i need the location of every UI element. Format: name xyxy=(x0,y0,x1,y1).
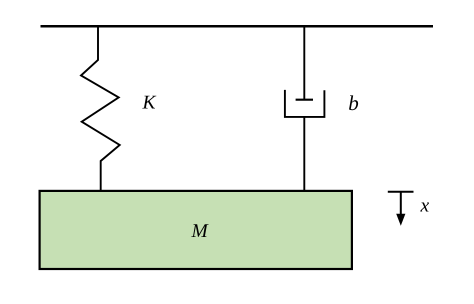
spring K xyxy=(81,26,120,191)
damper rod (top) xyxy=(303,26,305,100)
svg-text:x: x xyxy=(420,196,430,217)
damper cylinder xyxy=(285,90,325,117)
svg-text:M: M xyxy=(191,221,210,242)
damper rod (bottom) xyxy=(303,117,305,191)
ceiling (fixed support) xyxy=(41,25,434,28)
mass M block xyxy=(40,191,352,269)
displacement arrow x xyxy=(388,192,414,226)
svg-text:b: b xyxy=(348,91,359,115)
damper piston plate xyxy=(296,99,313,101)
svg-text:K: K xyxy=(142,92,157,113)
